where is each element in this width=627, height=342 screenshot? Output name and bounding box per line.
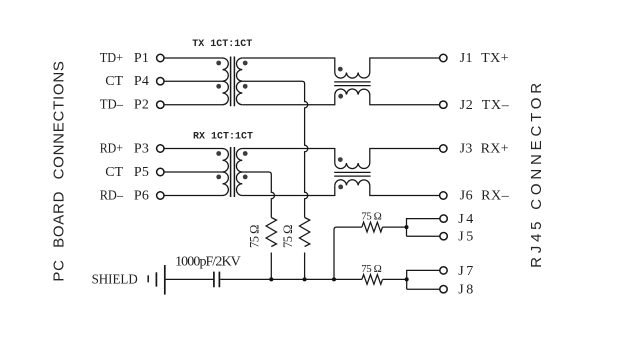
svg-text:J5: J5: [458, 230, 473, 245]
svg-text:RD–: RD–: [100, 189, 124, 204]
terminal J3: [440, 145, 447, 152]
phase dot T1 secondary top: [243, 61, 248, 66]
transformer T1 secondary bottom half winding: [236, 81, 242, 105]
choke L1 top winding: [335, 58, 440, 78]
shield symbol bars: [147, 275, 149, 282]
phase dot L1 bottom winding: [338, 94, 343, 99]
svg-text:TX 1CT:1CT: TX 1CT:1CT: [192, 39, 252, 50]
terminal J1: [440, 54, 447, 61]
transformer T2 secondary top half winding: [236, 149, 242, 173]
wire J7 J8 stubs: [407, 270, 441, 289]
svg-text:J8: J8: [458, 283, 473, 298]
terminal J2: [440, 101, 447, 108]
svg-text:P3: P3: [134, 142, 149, 157]
wire R2 to shield bus: [304, 253, 306, 280]
junction node J4 J5: [405, 225, 409, 229]
phase dot T2 secondary top: [243, 151, 248, 156]
svg-text:TD+: TD+: [100, 51, 123, 66]
wire T2 secondary bottom to choke L2 and J6: [242, 185, 334, 195]
wire T2 center tap bus with crossover hop: [242, 172, 274, 218]
transformer T2 core: [231, 147, 235, 197]
wire P6 to T2 primary: [164, 195, 223, 197]
svg-text:P2: P2: [134, 98, 149, 113]
svg-text:J6 RX–: J6 RX–: [460, 189, 510, 204]
svg-text:CT: CT: [105, 165, 123, 180]
choke L2 core: [334, 172, 370, 176]
choke L1 core: [334, 82, 370, 86]
wire R1 to shield bus: [270, 253, 272, 280]
wire R3 to J4 J5 junction: [383, 226, 407, 228]
resistor R3 75ohm horizontal: [362, 222, 383, 232]
wire P4 to T1 primary center tap: [164, 80, 223, 82]
terminal J5: [440, 233, 447, 240]
svg-text:75 Ω: 75 Ω: [361, 263, 382, 275]
wire shield to capacitor C1: [166, 278, 214, 280]
resistor R1 75ohm vertical: [266, 218, 276, 247]
transformer T1 core: [231, 57, 235, 107]
choke L2 bottom winding: [335, 180, 440, 196]
svg-text:RD+: RD+: [100, 142, 123, 157]
choke L1 bottom winding: [335, 89, 440, 105]
transformer T2 secondary bottom half winding: [236, 172, 242, 196]
svg-text:CT: CT: [105, 74, 123, 89]
svg-text:1000pF/2KV: 1000pF/2KV: [175, 255, 241, 270]
terminal P2: [157, 101, 164, 108]
svg-text:TD–: TD–: [100, 98, 124, 113]
svg-text:J1 TX+: J1 TX+: [460, 51, 509, 66]
terminal P1: [157, 54, 164, 61]
svg-text:J7: J7: [458, 264, 473, 279]
wire R4 to J7 J8 junction: [383, 278, 407, 280]
choke L2 top winding: [335, 149, 440, 169]
wire T1 center tap bus with crossover hops: [242, 81, 308, 217]
terminal P4: [157, 78, 164, 85]
wire shield bus: [220, 278, 362, 280]
svg-text:P6: P6: [134, 189, 149, 204]
terminal J6: [440, 192, 447, 199]
svg-text:PC BOARD CONNECTIONS: PC BOARD CONNECTIONS: [51, 60, 68, 281]
terminal P5: [157, 168, 164, 175]
wire P2 to T1 primary: [164, 104, 223, 106]
transformer T1 primary top half winding: [223, 58, 229, 81]
resistor R4 75ohm horizontal: [362, 275, 383, 285]
terminal J4: [440, 215, 447, 222]
svg-text:SHIELD: SHIELD: [92, 273, 138, 288]
phase dot T2 primary top: [216, 151, 221, 156]
terminal P3: [157, 145, 164, 152]
wire T1 secondary top to choke L1 and J1: [242, 58, 334, 73]
junction node R2 shield: [303, 277, 307, 281]
svg-text:J3 RX+: J3 RX+: [460, 142, 509, 157]
capacitor C1 1000pF/2KV plates: [214, 272, 220, 288]
transformer T1 secondary top half winding: [237, 58, 243, 81]
svg-text:J2 TX–: J2 TX–: [460, 98, 510, 113]
phase dot L2 bottom winding: [338, 185, 343, 190]
transformer T2 primary bottom half winding: [223, 172, 229, 196]
phase dot T2 secondary bottom: [243, 175, 248, 180]
phase dot T1 secondary bottom: [243, 84, 248, 89]
wire P5 to T2 primary center tap: [164, 171, 223, 173]
svg-text:75 Ω: 75 Ω: [361, 210, 382, 222]
transformer T1 primary bottom half winding: [223, 81, 229, 105]
phase dot T1 primary top: [216, 61, 221, 66]
svg-text:J4: J4: [458, 212, 473, 227]
svg-text:75 Ω: 75 Ω: [281, 225, 295, 248]
wire J4 J5 branch down to shield bus: [334, 227, 362, 279]
wire P3 to T2 primary: [164, 148, 223, 150]
junction node R3 branch shield: [332, 277, 336, 281]
svg-text:P5: P5: [134, 165, 149, 180]
svg-text:RJ45 CONNECTOR: RJ45 CONNECTOR: [528, 79, 545, 268]
wire P1 to T1 primary: [164, 57, 223, 59]
phase dot T2 primary bottom: [216, 175, 221, 180]
svg-text:75 Ω: 75 Ω: [248, 225, 262, 248]
wire T2 secondary top to choke L2 and J3: [242, 149, 334, 164]
terminal J8: [440, 286, 447, 293]
wire T1 secondary bottom to choke L1 and J2: [242, 95, 334, 105]
transformer T2 primary top half winding: [223, 149, 229, 173]
terminal J7: [440, 267, 447, 274]
wire J4 J5 stubs: [407, 219, 441, 237]
svg-text:P4: P4: [134, 74, 149, 89]
phase dot L1 top winding: [338, 67, 343, 72]
junction node J7 J8: [405, 277, 409, 281]
junction node R1 shield: [269, 277, 273, 281]
phase dot L2 top winding: [338, 157, 343, 162]
phase dot T1 primary bottom: [216, 84, 221, 89]
svg-text:P1: P1: [134, 51, 149, 66]
terminal P6: [157, 192, 164, 199]
resistor R2 75ohm vertical: [299, 218, 309, 247]
svg-text:RX 1CT:1CT: RX 1CT:1CT: [193, 132, 253, 143]
